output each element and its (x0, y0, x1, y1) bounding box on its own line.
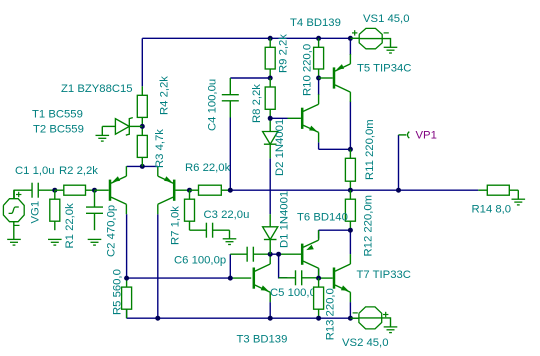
wire output rail (230, 189, 478, 191)
wire top rail to R4 (141, 38, 143, 86)
transistor T6 BD140 (PNP) (301, 244, 304, 265)
ground R14 (517, 190, 519, 199)
resistor R2 (55, 189, 64, 191)
ground C3 (229, 230, 231, 239)
svg-text:R14 8,0: R14 8,0 (472, 204, 512, 216)
resistor R9 (269, 38, 271, 47)
transistor T1 BC559 (PNP) (109, 180, 112, 201)
svg-text:C3 22,0u: C3 22,0u (204, 209, 250, 221)
zener Z1 (129, 125, 142, 127)
svg-text:R5 560,0: R5 560,0 (112, 269, 124, 315)
svg-text:R4 2,2k: R4 2,2k (159, 76, 171, 115)
node J23 (T7 emitter rail) (348, 316, 353, 321)
node J11 (C5/T6 base) (276, 252, 281, 257)
wire T4 collector to R10 (318, 78, 320, 95)
wire T4 base from D2 junction (270, 117, 287, 119)
wire bottom rail left riser (126, 310, 128, 319)
wire C4 down to output rail (229, 118, 231, 191)
svg-text:T7 TIP33C: T7 TIP33C (357, 269, 411, 281)
capacitor C3 (190, 229, 207, 231)
capacitor C6 (230, 253, 247, 255)
wire T6 emitter rail (319, 229, 351, 231)
wire C5 left elbow (279, 254, 288, 278)
resistor R13 (318, 278, 320, 287)
probe VP1 (399, 134, 407, 136)
wire diff emitters (127, 165, 158, 167)
svg-text:T3 BD139: T3 BD139 (237, 334, 288, 346)
svg-text:T6 BD140: T6 BD140 (297, 211, 348, 223)
transistor T4 BD139 (NPN) (301, 108, 304, 129)
transistor T2 base lead (176, 189, 190, 191)
transistor T2 BC559 (PNP) (173, 180, 176, 201)
ground R1 (48, 238, 62, 240)
svg-text:T1 BC559: T1 BC559 (32, 109, 83, 121)
wire T3 base lead (230, 277, 251, 279)
svg-text:R11 220,0m: R11 220,0m (364, 119, 376, 180)
transistor T1 base lead (95, 189, 109, 191)
wire top +45V rail (142, 37, 351, 39)
resistor R11 (349, 149, 351, 158)
wire input to C1 (14, 190, 15, 199)
svg-text:R8 2,2k: R8 2,2k (251, 84, 263, 123)
node J12 (T3 emitter rail) (268, 316, 273, 321)
wire D2 to D1 (269, 158, 271, 214)
wire C6 junction down (229, 254, 231, 278)
svg-text:D1 1N4001: D1 1N4001 (279, 191, 291, 248)
svg-text:Z1 BZY88C15: Z1 BZY88C15 (61, 83, 133, 95)
node J14 (R9/R8/C4 rail) (268, 76, 273, 81)
capacitor C4 (229, 78, 231, 95)
svg-text:D2 1N4001: D2 1N4001 (274, 119, 286, 176)
svg-text:R7 1,0k: R7 1,0k (170, 206, 182, 245)
svg-text:C4 100,0u: C4 100,0u (207, 79, 219, 131)
node J17 (R10/T4 coll/T5 base) (316, 76, 321, 81)
wire T5 collector down to R11 (349, 102, 351, 150)
resistor R1 (54, 190, 56, 199)
node J9 (C6 tap) (228, 276, 233, 281)
resistor R8 (269, 78, 271, 87)
node J7 (T1 coll/R5) (124, 276, 129, 281)
transistor T3 BD139 (NPN) (253, 268, 256, 289)
resistor R4 (141, 86, 143, 95)
wire T2 collector down (157, 214, 159, 318)
node J21 (T6 coll/C5/R13/T7 base) (316, 276, 321, 281)
ground C2 (88, 238, 102, 240)
svg-text:VP1: VP1 (416, 130, 437, 142)
wire C4 top rail (230, 77, 270, 79)
ground Z1 (101, 126, 103, 135)
node J22 (R13 bottom) (316, 316, 321, 321)
wire bottom rail to VS2 (127, 317, 359, 319)
wire VP1 tap up (398, 135, 400, 190)
svg-text:C1 1,0u: C1 1,0u (15, 165, 55, 177)
node J20 (R12/T6 e/T7 c) (348, 228, 353, 233)
svg-text:R10 220,0: R10 220,0 (302, 44, 314, 96)
svg-text:R12 220,0m: R12 220,0m (363, 195, 375, 257)
wire T7 collector up (349, 230, 351, 254)
node J18 (T4 e/T5 c/R11) (348, 147, 353, 152)
transistor T7 TIP33C (NPN) (333, 268, 336, 289)
node J2 (R2/C2/T1 base) (92, 188, 97, 193)
wire T1 collector down (126, 214, 128, 278)
transistor T5 TIP34C (PNP) (333, 67, 336, 88)
svg-text:VS2 45,0: VS2 45,0 (342, 337, 388, 349)
svg-text:R9 2,2k: R9 2,2k (278, 34, 290, 73)
wire T6 base lead (279, 253, 301, 255)
source VG1 (3, 199, 24, 222)
node J24 (VS1 plus) (348, 36, 353, 41)
wire T7 emitter down (349, 302, 351, 318)
resistor R14 load (478, 189, 487, 191)
svg-text:VG1: VG1 (30, 201, 42, 224)
node J6 (R6/C4/output rail) (228, 188, 233, 193)
wire T4 emitter down (318, 142, 320, 149)
node J3 (emitter junction) (140, 164, 145, 169)
svg-text:R2 2,2k: R2 2,2k (59, 165, 98, 177)
wire T5 emitter to rail (349, 38, 351, 55)
svg-text:T2 BC559: T2 BC559 (33, 124, 84, 136)
svg-text:R6 22,0k: R6 22,0k (185, 162, 231, 174)
diode D2 1N4001 (269, 118, 271, 131)
node J5 (T2 base) (187, 188, 192, 193)
source VS2 45V (350, 317, 359, 319)
node J10 (D1/C6/T3 coll) (268, 252, 273, 257)
transistor T4 base lead (288, 117, 301, 119)
svg-text:T5 TIP34C: T5 TIP34C (357, 63, 411, 75)
wire T6 collector down (318, 268, 320, 278)
transistor T5 base lead (319, 77, 333, 79)
capacitor C5 (279, 277, 296, 279)
node J4 (R3/R4/Z1) (140, 124, 145, 129)
svg-text:VS1 45,0: VS1 45,0 (363, 13, 409, 25)
node J1 (C1/R1/R2) (52, 188, 57, 193)
wire T6 emitter up (318, 230, 320, 238)
svg-text:C2 470,0p: C2 470,0p (106, 205, 118, 257)
ground VG1 (7, 238, 21, 240)
svg-text:C6 100,0p: C6 100,0p (174, 255, 226, 267)
resistor R10 (318, 38, 320, 47)
wire left rail (T1 coll / R5 / T3 base) (127, 277, 231, 279)
capacitor C2 (94, 190, 96, 207)
node J25 (VP1 tap) (396, 188, 401, 193)
resistor R12 (349, 190, 351, 199)
resistor R7 (189, 190, 191, 199)
capacitor C1 (16, 189, 33, 191)
node J8 (R5 rail/T2 coll) (155, 316, 160, 321)
resistor R5 (126, 278, 128, 287)
source VS1 45V (350, 37, 359, 39)
svg-text:R13 220,0: R13 220,0 (325, 288, 337, 340)
svg-text:T4 BD139: T4 BD139 (290, 17, 341, 29)
node J15 (R8/D2/T4 base) (268, 116, 273, 121)
wire T3 emitter down (269, 302, 271, 318)
wire T4 emitter to output column (319, 148, 351, 150)
transistor T7 base lead (319, 277, 333, 279)
node J13 (R9 top) (268, 36, 273, 41)
svg-text:R3 4,7k: R3 4,7k (154, 129, 166, 168)
node J16 (R10 top) (316, 36, 321, 41)
wire D1 bottom to C5 node (270, 253, 278, 255)
ground VS2 (382, 318, 391, 327)
ground VS1 (382, 39, 390, 48)
diode D1 1N4001 (269, 214, 271, 227)
node J19 (output node) (348, 188, 353, 193)
resistor R3 (141, 126, 143, 135)
svg-text:R1 22,0k: R1 22,0k (64, 203, 76, 249)
resistor R6 feedback (190, 189, 199, 191)
